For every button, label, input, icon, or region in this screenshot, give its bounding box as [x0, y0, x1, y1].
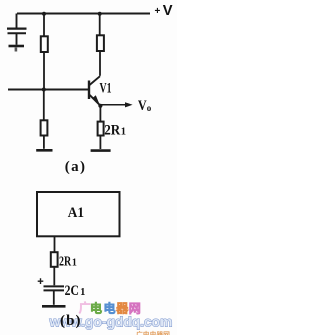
svg-text:广: 广: [79, 300, 91, 315]
scan smudge: [15, 48, 18, 52]
resistor 2R1 (b): [51, 252, 58, 267]
wire capacitor stub from rail: [16, 14, 18, 28]
resistor 2R1 (a): [98, 122, 104, 136]
ground (capacitor): [9, 45, 25, 48]
wire base node to lower bias resistor: [43, 90, 45, 121]
svg-text:1: 1: [80, 287, 85, 298]
svg-text:+: +: [155, 6, 161, 17]
watermark line 1: colored site name: [79, 300, 141, 316]
label 2R1 (b): [59, 255, 77, 270]
resistor upper bias: [41, 36, 48, 52]
resistor lower bias: [41, 120, 48, 135]
svg-text:电: 电: [104, 301, 116, 316]
wire input to base: [8, 89, 89, 91]
wire resistor to collector: [99, 51, 101, 76]
svg-text:A1: A1: [68, 205, 84, 221]
wire capacitor to ground: [16, 34, 18, 45]
capacitor (decoupling, unlabelled): [7, 29, 27, 34]
svg-text:2R: 2R: [104, 123, 120, 139]
ground (lower bias): [36, 149, 52, 152]
svg-text:电: 电: [90, 301, 102, 316]
node top-left junction: [42, 12, 46, 16]
svg-text:1: 1: [72, 258, 77, 269]
svg-text:2R: 2R: [59, 255, 72, 270]
capacitor 2C1 polarity plus: [38, 278, 44, 284]
wire resistor to ground: [43, 136, 45, 149]
svg-text:(a): (a): [65, 159, 85, 175]
ground (2C1): [42, 305, 66, 308]
svg-text:V1: V1: [100, 80, 112, 96]
svg-text:2C: 2C: [65, 283, 79, 299]
wire 2R1 to ground: [99, 136, 101, 150]
svg-text:器: 器: [115, 302, 129, 316]
svg-text:V: V: [138, 98, 147, 114]
wire rail to collector resistor: [99, 14, 101, 36]
resistor collector load: [97, 35, 104, 51]
capacitor 2C1: [44, 286, 65, 290]
op-amp block A1: [37, 192, 120, 236]
wire resistor to base node: [43, 52, 45, 90]
wire 2R1 to 2C1: [53, 267, 55, 286]
node top-right junction: [98, 12, 102, 16]
label Vo: [138, 98, 152, 114]
wire rail to upper bias resistor: [43, 14, 45, 36]
ground (2R1 a): [91, 149, 111, 152]
wire emitter node down to 2R1: [99, 106, 101, 122]
node emitter output junction: [98, 104, 102, 108]
label 2R1 (a): [104, 123, 126, 139]
wire A1 to 2R1 (b): [54, 236, 56, 252]
wire 2C1 to ground: [53, 291, 55, 305]
transistor V1: [89, 76, 100, 105]
wire emitter node to output arrow: [100, 104, 126, 106]
arrow Vo: [125, 102, 133, 107]
wire top supply rail: [17, 13, 150, 15]
svg-text:网: 网: [129, 302, 141, 316]
label 2C1: [65, 283, 86, 299]
svg-text:o: o: [147, 103, 152, 113]
svg-text:V: V: [163, 3, 173, 19]
node base junction: [42, 88, 46, 92]
svg-text:(b): (b): [60, 313, 81, 329]
label +V: [155, 3, 173, 19]
svg-text:1: 1: [121, 127, 126, 138]
